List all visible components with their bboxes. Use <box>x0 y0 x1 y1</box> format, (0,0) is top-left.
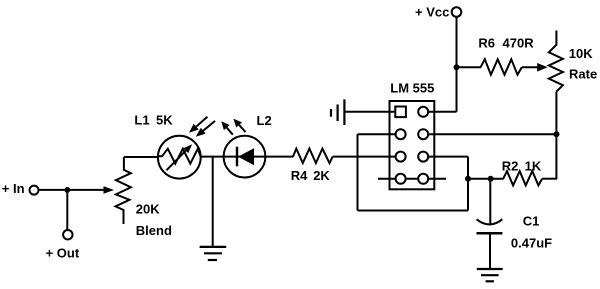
svg-text:+ In: + In <box>2 181 25 196</box>
svg-text:+ Vcc: + Vcc <box>415 4 449 19</box>
svg-text:R2: R2 <box>502 158 519 173</box>
svg-text:2K: 2K <box>313 168 330 183</box>
svg-text:1K: 1K <box>525 158 542 173</box>
svg-text:+ Out: + Out <box>46 246 80 261</box>
svg-text:R4: R4 <box>291 168 308 183</box>
svg-text:470R: 470R <box>503 35 535 50</box>
svg-text:Blend: Blend <box>136 223 172 238</box>
svg-text:C1: C1 <box>523 214 540 229</box>
svg-text:LM 555: LM 555 <box>390 80 434 95</box>
svg-text:R6: R6 <box>478 35 495 50</box>
svg-text:20K: 20K <box>136 202 160 217</box>
svg-text:L1: L1 <box>134 113 149 128</box>
svg-text:5K: 5K <box>156 113 173 128</box>
svg-text:Rate: Rate <box>569 66 597 81</box>
svg-text:L2: L2 <box>257 113 272 128</box>
svg-text:0.47uF: 0.47uF <box>511 235 552 250</box>
svg-text:10K: 10K <box>569 46 593 61</box>
